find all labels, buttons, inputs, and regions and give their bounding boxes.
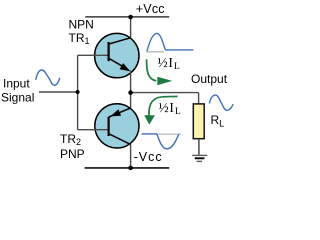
junction node at input xyxy=(76,90,80,94)
top half-sine hump xyxy=(147,33,166,51)
svg-text:PNP: PNP xyxy=(60,147,85,161)
transistor TR2 symbol xyxy=(109,108,131,144)
wire: TR2 base xyxy=(78,129,109,131)
bottom half-wave baseline xyxy=(142,133,158,135)
transistor TR1 (NPN) body xyxy=(95,33,139,77)
+Vcc rail xyxy=(85,16,169,18)
svg-text:RL: RL xyxy=(211,113,225,129)
bottom half-sine dip xyxy=(157,134,179,149)
svg-text:Output: Output xyxy=(191,72,228,86)
wire: down to RL xyxy=(198,93,200,105)
transistor TR2 (PNP) body xyxy=(95,104,139,148)
svg-text:½IL: ½IL xyxy=(159,100,182,117)
ground xyxy=(192,155,207,161)
svg-text:½IL: ½IL xyxy=(158,55,181,72)
svg-text:+Vcc: +Vcc xyxy=(136,2,165,16)
svg-text:TR1: TR1 xyxy=(69,31,90,46)
wire: TR1 emitter to output node xyxy=(130,71,132,93)
svg-text:NPN: NPN xyxy=(69,18,94,32)
green current arrow top xyxy=(147,59,173,85)
input sine wave xyxy=(36,70,60,85)
top half-wave baseline xyxy=(165,49,193,51)
top half-wave zero line (gray) xyxy=(146,51,164,53)
svg-text:-Vcc: -Vcc xyxy=(134,150,163,164)
junction node at +Vcc xyxy=(128,15,133,20)
wire: output node to TR2 emitter xyxy=(130,93,132,109)
transistor TR1 symbol xyxy=(109,38,131,72)
output sine wave xyxy=(209,95,233,110)
green current arrow bottom xyxy=(144,96,177,124)
wire: input horizontal xyxy=(39,91,78,93)
wire: TR2 collector to -Vcc xyxy=(130,145,132,168)
wire: output horizontal to load xyxy=(131,92,199,94)
wire: input vertical bus xyxy=(77,55,79,129)
svg-text:Input: Input xyxy=(3,77,30,91)
-Vcc rail xyxy=(85,167,170,169)
wire: TR1 collector to +Vcc xyxy=(130,17,132,39)
junction node at output xyxy=(128,90,133,95)
svg-text:TR2: TR2 xyxy=(60,132,81,147)
wire: TR1 base xyxy=(78,54,109,56)
resistor RL xyxy=(193,104,204,139)
wire: RL to ground xyxy=(198,139,200,155)
bottom half-wave zero line (gray) xyxy=(157,133,181,135)
junction node at -Vcc xyxy=(128,166,133,171)
svg-text:Signal: Signal xyxy=(1,90,34,104)
